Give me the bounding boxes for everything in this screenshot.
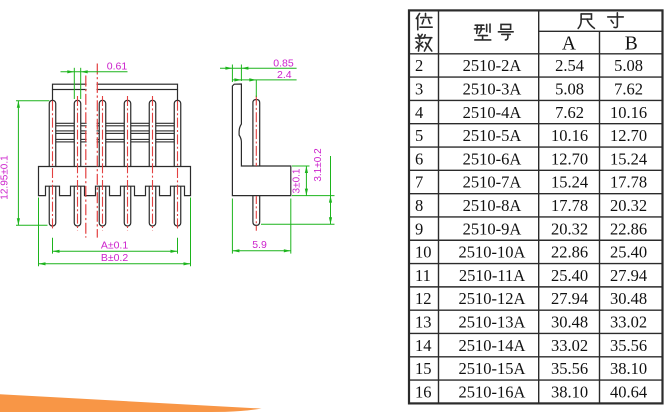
svg-text:3: 3 bbox=[415, 80, 423, 99]
svg-text:38.10: 38.10 bbox=[610, 359, 647, 378]
svg-text:B±0.2: B±0.2 bbox=[101, 252, 129, 264]
svg-text:5.9: 5.9 bbox=[252, 239, 267, 251]
svg-text:13: 13 bbox=[415, 313, 432, 332]
svg-text:12.70: 12.70 bbox=[610, 126, 647, 145]
break gap (white) over top bar and rails between break lines bbox=[87, 83, 97, 145]
svg-text:2510-3A: 2510-3A bbox=[463, 80, 522, 99]
svg-text:14: 14 bbox=[415, 336, 432, 355]
svg-text:7.62: 7.62 bbox=[614, 80, 643, 99]
svg-text:2510-12A: 2510-12A bbox=[459, 289, 526, 308]
svg-text:10.16: 10.16 bbox=[610, 103, 647, 122]
svg-text:8: 8 bbox=[415, 196, 423, 215]
svg-text:2.54: 2.54 bbox=[555, 56, 584, 75]
red pin centerlines bbox=[53, 96, 178, 231]
svg-text:27.94: 27.94 bbox=[610, 266, 647, 285]
svg-text:9: 9 bbox=[415, 219, 423, 238]
svg-text:2.4: 2.4 bbox=[277, 69, 292, 81]
table header char 位 bbox=[416, 13, 432, 29]
svg-text:7.62: 7.62 bbox=[555, 103, 584, 122]
orange footer swoosh bbox=[0, 394, 262, 412]
front view base block with standoff notches bbox=[39, 167, 191, 196]
side view pin lower segment bbox=[253, 196, 260, 226]
svg-text:B: B bbox=[625, 33, 638, 54]
svg-text:17.78: 17.78 bbox=[610, 173, 647, 192]
svg-text:35.56: 35.56 bbox=[551, 359, 588, 378]
svg-text:10: 10 bbox=[415, 243, 432, 262]
svg-text:2510-5A: 2510-5A bbox=[463, 126, 522, 145]
svg-text:15.24: 15.24 bbox=[610, 149, 647, 168]
svg-text:15: 15 bbox=[415, 359, 432, 378]
table header char 尺 bbox=[578, 14, 594, 28]
side view L-shaped housing outline bbox=[232, 84, 290, 196]
svg-text:0.85: 0.85 bbox=[273, 58, 294, 70]
svg-text:2510-2A: 2510-2A bbox=[463, 56, 522, 75]
svg-text:5.08: 5.08 bbox=[614, 56, 643, 75]
red break centerlines (variable pin count) bbox=[86, 64, 98, 238]
svg-text:2510-14A: 2510-14A bbox=[459, 336, 526, 355]
svg-text:12: 12 bbox=[415, 289, 432, 308]
svg-text:2510-4A: 2510-4A bbox=[463, 103, 522, 122]
svg-text:11: 11 bbox=[415, 266, 431, 285]
svg-text:5.08: 5.08 bbox=[555, 80, 584, 99]
table header char 号 bbox=[498, 24, 513, 40]
dimension 0.85 wall thickness bbox=[220, 65, 297, 83]
front view housing top bar bbox=[53, 84, 178, 100]
side view pin centerline upper bbox=[255, 96, 257, 167]
dimension B±0.2 base width bbox=[39, 198, 191, 267]
svg-text:2510-11A: 2510-11A bbox=[459, 266, 525, 285]
svg-text:2510-8A: 2510-8A bbox=[463, 196, 522, 215]
svg-text:25.40: 25.40 bbox=[551, 266, 588, 285]
svg-text:38.10: 38.10 bbox=[551, 382, 588, 401]
front view horizontal pin rails (3 bands) bbox=[53, 123, 178, 142]
table header char 寸 bbox=[608, 13, 624, 28]
svg-text:6: 6 bbox=[415, 149, 423, 168]
table header A B bbox=[562, 33, 638, 54]
svg-text:20.32: 20.32 bbox=[610, 196, 647, 215]
svg-text:22.86: 22.86 bbox=[551, 243, 588, 262]
svg-text:27.94: 27.94 bbox=[551, 289, 588, 308]
svg-text:2510-16A: 2510-16A bbox=[459, 382, 526, 401]
svg-text:2: 2 bbox=[415, 56, 423, 75]
side view pin centerline lower bbox=[255, 196, 257, 231]
svg-text:20.32: 20.32 bbox=[551, 219, 588, 238]
svg-text:35.56: 35.56 bbox=[610, 336, 647, 355]
svg-text:30.48: 30.48 bbox=[610, 289, 647, 308]
svg-text:0.61: 0.61 bbox=[107, 60, 128, 72]
table grid bbox=[409, 10, 663, 403]
svg-text:33.02: 33.02 bbox=[610, 313, 647, 332]
svg-text:16: 16 bbox=[415, 382, 432, 401]
svg-text:22.86: 22.86 bbox=[610, 219, 647, 238]
svg-text:4: 4 bbox=[415, 103, 423, 122]
svg-text:17.78: 17.78 bbox=[551, 196, 588, 215]
table header char 数 bbox=[416, 34, 432, 51]
svg-text:2510-15A: 2510-15A bbox=[459, 359, 526, 378]
svg-text:12.95±0.1: 12.95±0.1 bbox=[0, 155, 11, 200]
svg-text:10.16: 10.16 bbox=[551, 126, 588, 145]
table data rows bbox=[415, 56, 647, 401]
dimension 0.61 pin width bbox=[61, 68, 128, 99]
table header char 型 bbox=[474, 24, 490, 40]
svg-text:A: A bbox=[562, 33, 576, 54]
svg-text:40.64: 40.64 bbox=[610, 382, 647, 401]
svg-text:2510-6A: 2510-6A bbox=[463, 149, 522, 168]
svg-text:2510-13A: 2510-13A bbox=[459, 313, 526, 332]
front view pins P1-P6 (vertical square pins with rounded ends) bbox=[49, 100, 181, 226]
svg-text:33.02: 33.02 bbox=[551, 336, 588, 355]
svg-text:12.70: 12.70 bbox=[551, 149, 588, 168]
svg-text:3.1±0.2: 3.1±0.2 bbox=[313, 148, 324, 182]
svg-text:2510-10A: 2510-10A bbox=[459, 243, 526, 262]
svg-text:2510-9A: 2510-9A bbox=[463, 219, 522, 238]
svg-text:25.40: 25.40 bbox=[610, 243, 647, 262]
svg-text:3±0.1: 3±0.1 bbox=[292, 168, 303, 193]
svg-text:7: 7 bbox=[415, 173, 423, 192]
dimension A±0.1 pin span bbox=[53, 238, 178, 254]
svg-text:A±0.1: A±0.1 bbox=[101, 239, 129, 251]
dimension 12.95±0.1 overall pin length bbox=[16, 101, 49, 226]
side view pin upper segment bbox=[253, 100, 260, 167]
svg-text:15.24: 15.24 bbox=[551, 173, 588, 192]
dimension 5.9 base depth bbox=[232, 199, 290, 254]
dimension 2.4 wall-to-pin offset bbox=[232, 80, 296, 97]
dimension 3.1±0.2 pin protrusion bbox=[261, 156, 335, 224]
dimension 3±0.1 base height bbox=[292, 166, 335, 196]
svg-text:5: 5 bbox=[415, 126, 423, 145]
svg-text:30.48: 30.48 bbox=[551, 313, 588, 332]
svg-text:2510-7A: 2510-7A bbox=[463, 173, 522, 192]
